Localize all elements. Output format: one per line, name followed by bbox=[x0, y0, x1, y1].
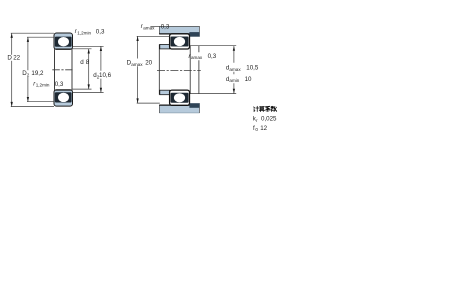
label r amax 0,3 middle bbox=[189, 53, 217, 60]
right view centerline bbox=[157, 70, 201, 72]
housing bottom band right edge bbox=[198, 103, 200, 113]
dimension d2 extension line bottom bbox=[73, 92, 104, 94]
bearing bottom section ball bbox=[58, 93, 69, 102]
dimension D2 extension line top bbox=[27, 36, 54, 38]
dimension d line bbox=[88, 49, 90, 89]
housing bottom band left edge bbox=[158, 105, 160, 113]
label kr 0,025 bbox=[253, 116, 277, 123]
svg-text:0,025: 0,025 bbox=[261, 116, 277, 123]
glyph 数 bbox=[271, 106, 277, 111]
dimension d2 extension line top bbox=[73, 45, 104, 47]
bearing bottom section seal band bbox=[55, 92, 72, 102]
svg-text:20: 20 bbox=[145, 60, 152, 67]
left view centerline bbox=[52, 69, 72, 71]
svg-text:0,3: 0,3 bbox=[208, 53, 217, 60]
svg-text:r: r bbox=[256, 118, 258, 123]
label damax 10,5 bbox=[226, 65, 259, 72]
glyph 计 bbox=[254, 106, 259, 111]
svg-text:amax: amax bbox=[191, 55, 203, 60]
bearing top section body bbox=[54, 33, 73, 49]
housing top band bbox=[159, 26, 199, 34]
dimension Damax extension top bbox=[137, 35, 170, 37]
svg-text:8: 8 bbox=[86, 59, 90, 66]
bearing top section ball bbox=[58, 37, 69, 46]
svg-text:amax: amax bbox=[131, 62, 143, 67]
housing top band face line bbox=[150, 25, 199, 27]
dimension D extension line top bbox=[11, 32, 54, 34]
right view bottom section ball bbox=[174, 93, 185, 102]
housing top band right edge bbox=[198, 26, 200, 36]
svg-text:d: d bbox=[80, 59, 84, 66]
svg-text:10,5: 10,5 bbox=[246, 65, 259, 72]
bearing top section bore line bbox=[54, 48, 72, 50]
glyph 系 bbox=[266, 106, 271, 111]
right view top section ball bbox=[174, 37, 185, 46]
housing bottom bore line bbox=[159, 104, 189, 106]
heading 计算系数 (calculation factors) drawn as vector strokes bbox=[254, 106, 277, 111]
svg-text:12: 12 bbox=[260, 125, 267, 132]
right shoulder step face line bbox=[189, 46, 191, 94]
svg-text:amin: amin bbox=[229, 78, 239, 83]
label f0 12 bbox=[253, 125, 268, 132]
housing bottom band bbox=[159, 105, 199, 113]
svg-text:0,3: 0,3 bbox=[161, 24, 170, 31]
label r1,2min 0,3 middle bbox=[33, 80, 64, 88]
dimension d extension line top bbox=[73, 48, 92, 50]
bearing bottom section body bbox=[54, 90, 73, 106]
bore cylinder right line bbox=[71, 49, 73, 89]
right shoulder end line bbox=[198, 46, 200, 94]
dimension Damax line bbox=[136, 36, 138, 103]
svg-text:amax: amax bbox=[229, 67, 241, 72]
dimension D extension line bottom bbox=[11, 106, 54, 108]
bearing bottom section bore line bbox=[54, 89, 72, 91]
housing bottom shoulder (navy) bbox=[189, 103, 199, 108]
housing top bore line bbox=[159, 33, 189, 35]
svg-text:1,2min: 1,2min bbox=[77, 30, 91, 35]
dimension Damax extension bottom bbox=[137, 102, 160, 104]
svg-text:0: 0 bbox=[255, 127, 258, 132]
shaft shoulder bottom line / da extension bottom bbox=[190, 93, 236, 95]
svg-text:10: 10 bbox=[245, 76, 252, 83]
housing top band left edge bbox=[158, 26, 160, 34]
svg-text:1,2min: 1,2min bbox=[36, 83, 50, 88]
label r amax 0,3 top bbox=[141, 23, 170, 31]
right view top bearing section body bbox=[170, 34, 190, 49]
dimension D2 line bbox=[27, 37, 29, 102]
dimension D line bbox=[11, 33, 13, 106]
housing bottom band face line bbox=[159, 112, 199, 114]
label r1,2min 0,3 top bbox=[75, 28, 105, 36]
dimension d extension line bottom bbox=[73, 88, 92, 90]
svg-text:0,3: 0,3 bbox=[55, 81, 64, 88]
svg-text:10,6: 10,6 bbox=[99, 72, 112, 79]
shaft bottom shoulder block bbox=[160, 90, 170, 95]
svg-text:amax: amax bbox=[143, 25, 155, 30]
svg-text:2: 2 bbox=[27, 73, 30, 78]
dimension d2 line bbox=[100, 46, 102, 92]
svg-text:0,3: 0,3 bbox=[96, 29, 105, 36]
bearing top section seal band bbox=[55, 37, 72, 47]
bore cylinder left line bbox=[54, 49, 56, 89]
shaft end line bbox=[158, 44, 160, 94]
right view top section seal band bbox=[171, 37, 189, 47]
shaft top shoulder block bbox=[160, 44, 170, 49]
label damin 10 bbox=[226, 76, 252, 83]
right view bottom section seal band bbox=[171, 93, 189, 103]
dimension da line bbox=[233, 46, 235, 93]
svg-text:22: 22 bbox=[13, 55, 20, 62]
label Damax 20 bbox=[127, 60, 153, 67]
right view bottom bearing section body bbox=[170, 90, 190, 105]
housing top shoulder (navy) bbox=[189, 32, 199, 37]
glyph 算 bbox=[259, 107, 264, 112]
svg-text:19,2: 19,2 bbox=[31, 70, 44, 77]
shaft shoulder top line / da extension top bbox=[190, 45, 236, 47]
dimension D2 extension line bottom bbox=[27, 101, 54, 103]
svg-text:D: D bbox=[7, 55, 12, 62]
